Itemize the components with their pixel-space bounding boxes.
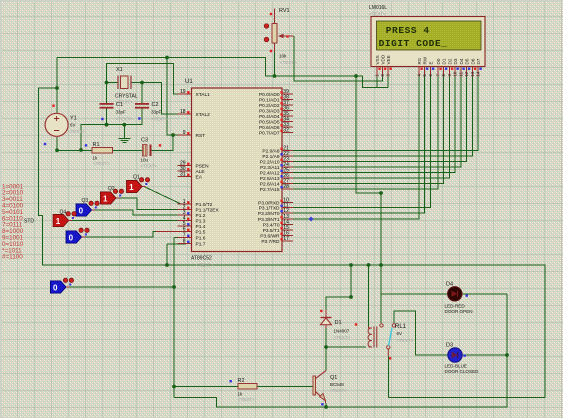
svg-text:<TEXT>: <TEXT> (141, 164, 158, 169)
svg-text:P2.5/A13: P2.5/A13 (260, 176, 280, 182)
svg-text:R2: R2 (238, 378, 245, 384)
svg-text:0: 0 (69, 234, 74, 243)
svg-text:E: E (428, 61, 433, 64)
svg-text:28: 28 (283, 184, 289, 190)
svg-text:1k: 1k (93, 156, 99, 161)
svg-text:C2: C2 (152, 102, 159, 108)
svg-text:P0.1/AD1: P0.1/AD1 (259, 97, 280, 103)
svg-text:D6: D6 (470, 58, 475, 64)
svg-text:18: 18 (180, 109, 186, 115)
svg-text:P0.0/AD0: P0.0/AD0 (259, 92, 280, 98)
svg-text:P1.6: P1.6 (196, 235, 206, 241)
svg-text:1N4007: 1N4007 (334, 329, 350, 334)
svg-text:ALE: ALE (196, 169, 205, 175)
svg-text:33pF: 33pF (116, 110, 127, 115)
svg-text:P3.1/TXD: P3.1/TXD (259, 205, 280, 211)
svg-text:VDD: VDD (380, 54, 385, 64)
svg-text:P0.3/AD3: P0.3/AD3 (259, 108, 280, 114)
svg-text:0: 0 (79, 207, 84, 216)
svg-text:1: 1 (56, 217, 61, 226)
svg-text:U1: U1 (185, 79, 193, 85)
svg-text:P2.7/A15: P2.7/A15 (260, 187, 280, 193)
svg-text:P3.7/RD: P3.7/RD (261, 239, 280, 245)
svg-text:EA: EA (196, 174, 203, 180)
svg-text:<TEXT>: <TEXT> (116, 117, 133, 122)
svg-text:PSEN: PSEN (196, 163, 210, 169)
svg-text:BC548: BC548 (330, 382, 344, 387)
svg-text:Y1: Y1 (70, 116, 77, 122)
svg-text:D3: D3 (446, 343, 453, 349)
svg-text:<TEXT>: <TEXT> (397, 338, 414, 343)
svg-text:<TEXT>: <TEXT> (93, 161, 110, 166)
svg-text:P2.1/A9: P2.1/A9 (262, 154, 279, 160)
svg-text:RST: RST (196, 133, 206, 139)
svg-text:31: 31 (180, 172, 186, 178)
svg-text:P0.6/AD6: P0.6/AD6 (259, 125, 280, 131)
svg-text:<TEXT>: <TEXT> (330, 388, 347, 393)
svg-text:LED-BLUE: LED-BLUE (445, 364, 467, 369)
svg-text:D7: D7 (476, 58, 481, 64)
svg-text:LED-RED: LED-RED (445, 304, 466, 309)
svg-text:32: 32 (283, 128, 289, 134)
svg-text:P0.2/AD2: P0.2/AD2 (259, 103, 280, 109)
svg-text:12: 12 (464, 71, 469, 76)
svg-text:D1: D1 (335, 320, 342, 326)
svg-text:D1: D1 (441, 58, 446, 64)
svg-text:Q1: Q1 (133, 175, 140, 181)
svg-text:RV1: RV1 (279, 8, 290, 14)
svg-text:17: 17 (283, 236, 289, 242)
svg-text:D4: D4 (459, 58, 464, 64)
svg-text:D3: D3 (453, 58, 458, 64)
svg-text:XTAL1: XTAL1 (196, 92, 211, 98)
svg-text:P3.2/INT0: P3.2/INT0 (258, 211, 280, 217)
svg-text:D4: D4 (446, 282, 453, 288)
svg-text:P2.4/A12: P2.4/A12 (260, 170, 280, 176)
svg-text:P2.3/A11: P2.3/A11 (260, 165, 280, 171)
svg-text:<TEXT>: <TEXT> (334, 335, 351, 340)
svg-text:P3.4/T0: P3.4/T0 (263, 222, 280, 228)
svg-text:6V: 6V (70, 123, 76, 128)
svg-text:#=1100: #=1100 (2, 254, 23, 261)
svg-text:P3.3/INT1: P3.3/INT1 (258, 217, 280, 223)
svg-text:P3.6/WR: P3.6/WR (260, 233, 280, 239)
svg-text:AT89C52: AT89C52 (191, 256, 212, 262)
svg-text:10k: 10k (279, 54, 287, 59)
svg-text:<TEXT>: <TEXT> (280, 60, 297, 65)
svg-text:P1.5: P1.5 (196, 229, 206, 235)
svg-text:VEE: VEE (386, 55, 391, 64)
svg-text:P2.0/A8: P2.0/A8 (262, 148, 279, 154)
svg-text:PRESS 4: PRESS 4 (386, 25, 430, 36)
svg-text:P1.4: P1.4 (196, 224, 206, 230)
svg-text:P1.7: P1.7 (196, 241, 206, 247)
svg-text:DOOR CLOSED: DOOR CLOSED (445, 369, 480, 374)
svg-text:DIGIT CODE_: DIGIT CODE_ (379, 38, 448, 49)
svg-text:1: 1 (103, 195, 108, 204)
svg-text:33pF: 33pF (151, 110, 162, 115)
svg-text:P0.7/AD7: P0.7/AD7 (259, 130, 280, 136)
svg-text:P1.0/T2: P1.0/T2 (196, 202, 213, 208)
svg-text:8: 8 (183, 239, 186, 245)
svg-text:<TEXT>: <TEXT> (196, 263, 213, 268)
svg-text:P0.4/AD4: P0.4/AD4 (259, 114, 280, 120)
svg-text:RS: RS (417, 58, 422, 64)
svg-text:STD: STD (24, 219, 34, 225)
svg-text:R1: R1 (93, 142, 100, 148)
svg-text:P0.5/AD5: P0.5/AD5 (259, 119, 280, 125)
svg-text:DOOR OPEN: DOOR OPEN (445, 309, 473, 314)
svg-text:<TEXT>: <TEXT> (151, 117, 168, 122)
svg-text:<TEXT>: <TEXT> (68, 129, 85, 134)
svg-text:1k: 1k (238, 392, 244, 397)
svg-text:D5: D5 (464, 58, 469, 64)
svg-text:14: 14 (476, 71, 481, 76)
svg-text:D2: D2 (447, 58, 452, 64)
svg-text:1: 1 (129, 183, 134, 192)
svg-text:P2.6/A14: P2.6/A14 (260, 181, 280, 187)
svg-text:9: 9 (183, 130, 186, 136)
svg-text:Q1: Q1 (330, 375, 337, 381)
svg-text:P1.1/T2EX: P1.1/T2EX (196, 207, 220, 213)
svg-text:P3.5/T1: P3.5/T1 (263, 228, 280, 234)
svg-text:10u: 10u (141, 158, 149, 163)
svg-text:Q3: Q3 (82, 198, 89, 204)
svg-text:<TEXT>: <TEXT> (238, 397, 255, 402)
svg-text:LM016L: LM016L (369, 5, 387, 11)
svg-text:<TEXT>: <TEXT> (369, 12, 386, 17)
svg-text:Q2: Q2 (108, 186, 115, 192)
svg-text:6V: 6V (397, 331, 403, 336)
svg-text:VSS: VSS (375, 55, 380, 64)
svg-text:P2.2/A10: P2.2/A10 (260, 159, 280, 165)
svg-text:X1: X1 (116, 67, 123, 73)
svg-text:P1.2: P1.2 (196, 213, 206, 219)
svg-text:XTAL2: XTAL2 (196, 112, 211, 118)
svg-text:0: 0 (53, 284, 58, 293)
svg-text:13: 13 (470, 71, 475, 76)
svg-text:Q4: Q4 (60, 210, 67, 216)
svg-text:C1: C1 (116, 102, 123, 108)
svg-text:10: 10 (453, 71, 458, 76)
svg-text:C3: C3 (141, 138, 148, 144)
svg-text:RW: RW (422, 56, 427, 64)
svg-text:19: 19 (180, 89, 186, 95)
svg-text:D0: D0 (436, 58, 441, 64)
svg-text:11: 11 (459, 71, 464, 76)
svg-text:RL1: RL1 (395, 324, 407, 330)
svg-text:P1.3: P1.3 (196, 218, 206, 224)
